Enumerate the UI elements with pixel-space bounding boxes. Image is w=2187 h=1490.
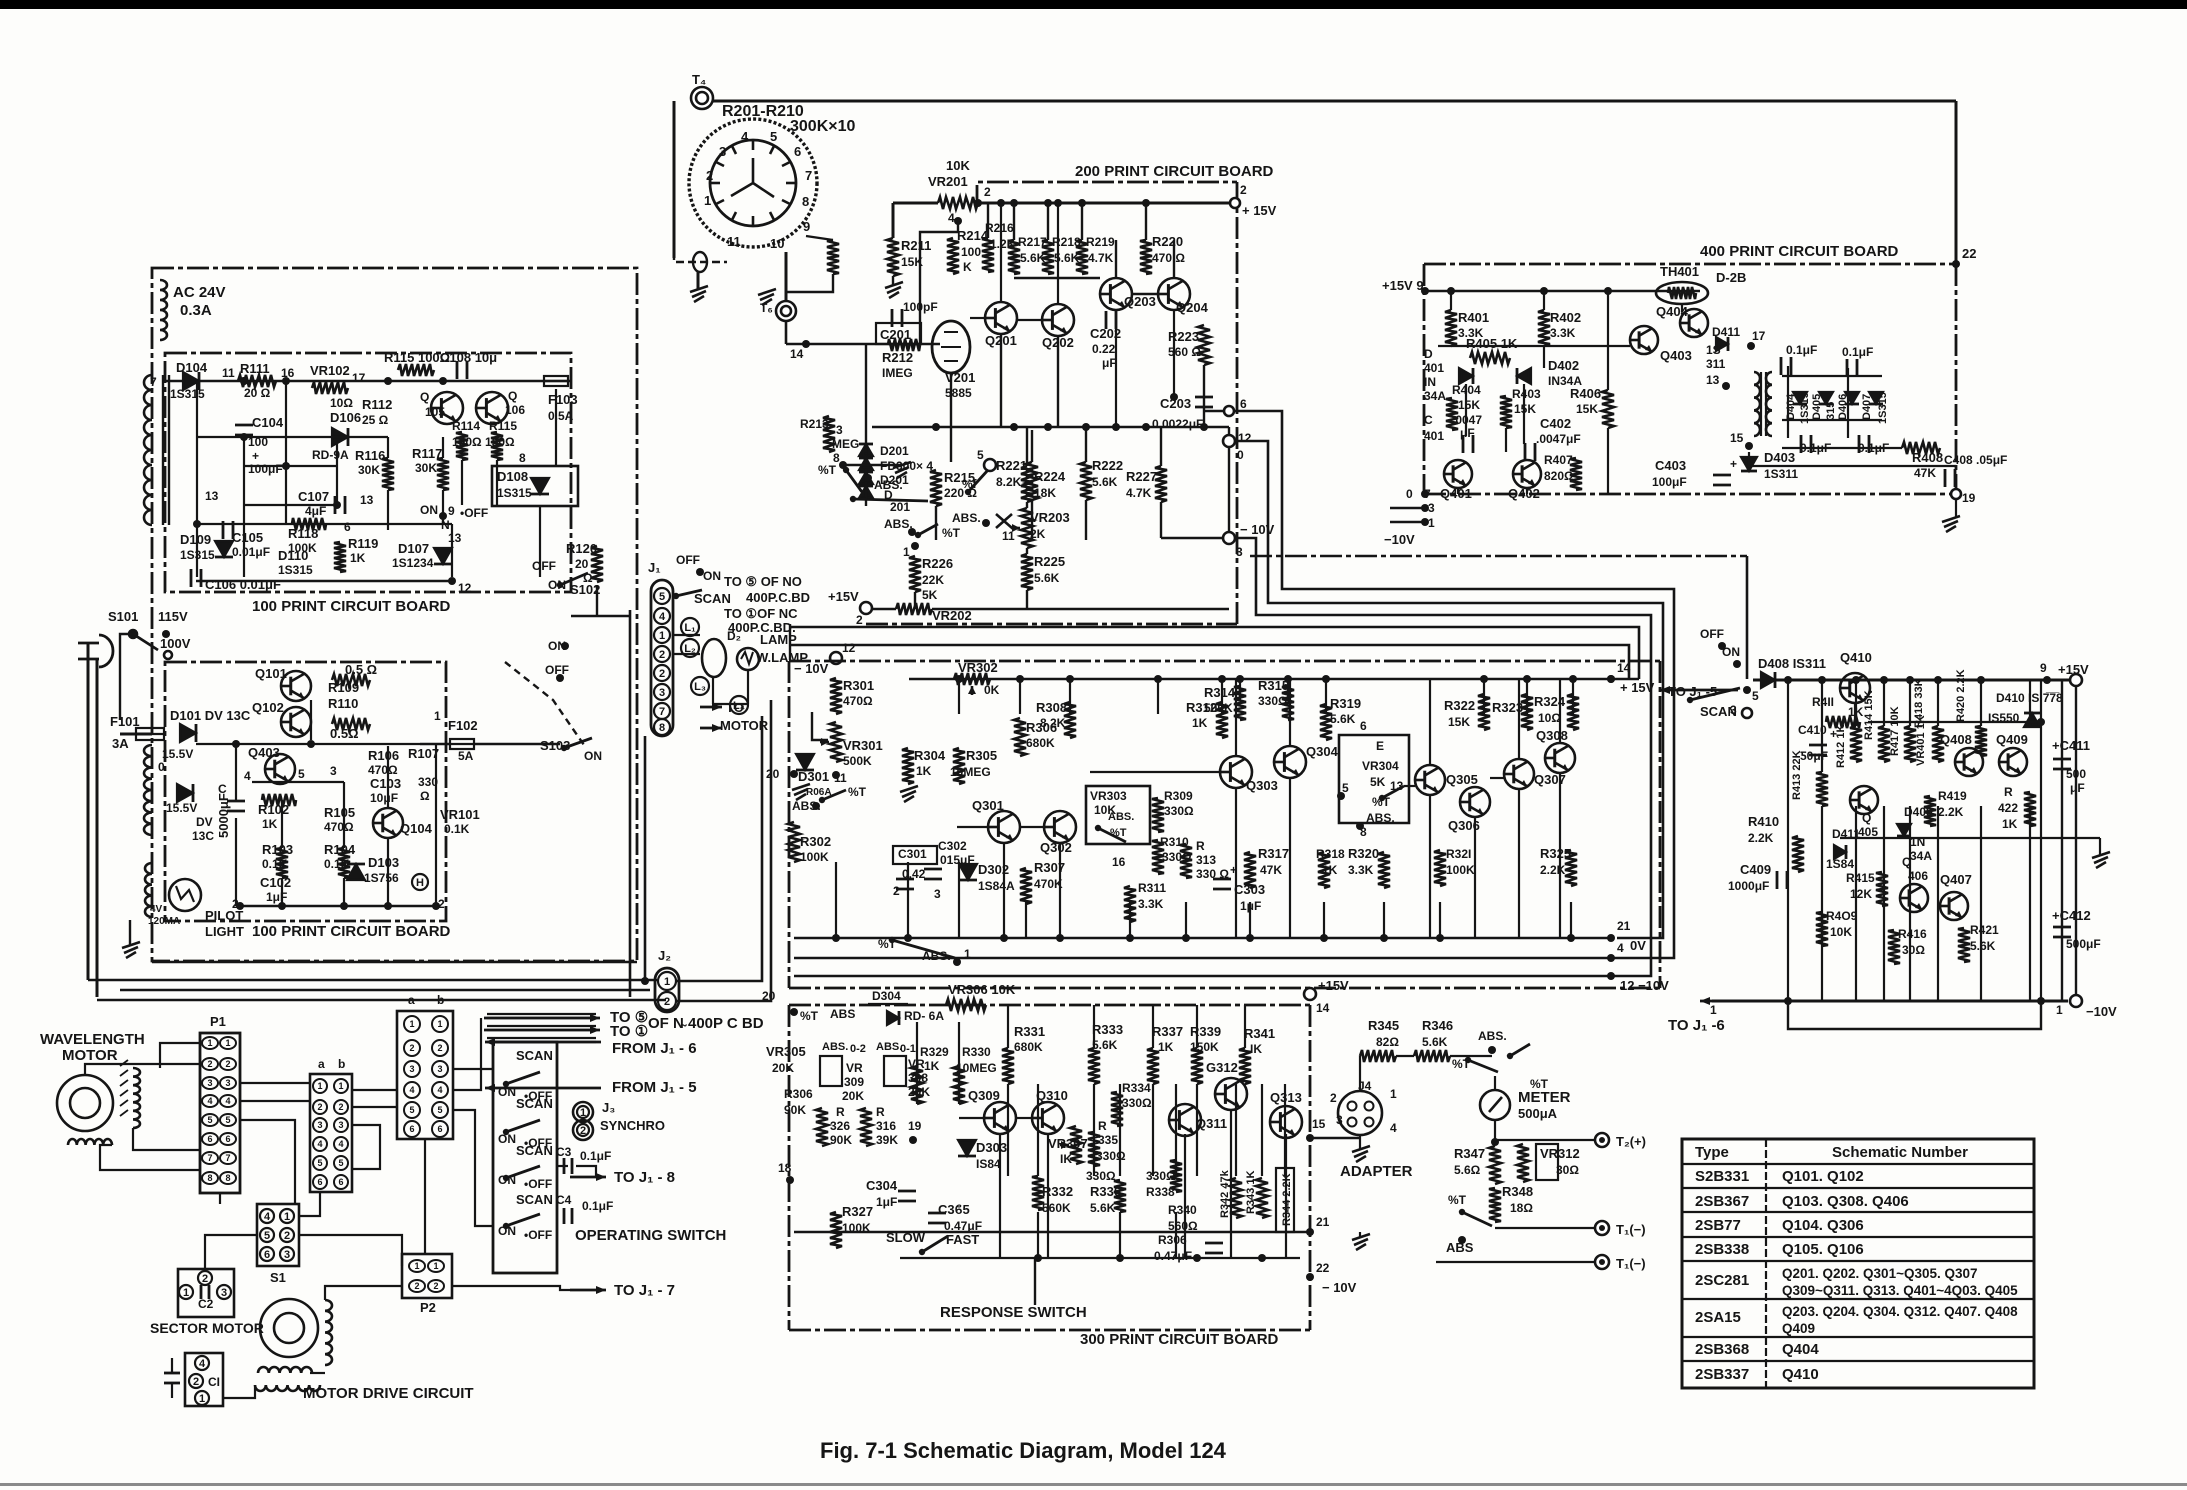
resistor R333 element	[1088, 1048, 1100, 1084]
400 board outline right	[1955, 264, 1958, 494]
junction c3	[1112, 423, 1120, 431]
fuse F103	[544, 376, 568, 386]
svg-text:Q409: Q409	[1782, 1321, 1815, 1336]
wire secondary to bottom rail	[1749, 452, 1956, 466]
junction top bus 300	[1322, 675, 1330, 683]
wire -10V return loop right section	[1788, 1001, 2041, 1029]
arrow TO J1-8	[570, 1176, 606, 1179]
transistor Q410	[1840, 673, 1870, 703]
svg-text:R119: R119	[348, 536, 378, 551]
svg-text:316: 316	[876, 1119, 896, 1133]
svg-text:2.2K: 2.2K	[1540, 863, 1566, 877]
connector P2 pin pair 1	[409, 1260, 425, 1272]
svg-text:2: 2	[433, 1281, 438, 1291]
svg-text:18K: 18K	[1034, 486, 1056, 500]
svg-text:1S84: 1S84	[1826, 857, 1854, 871]
svg-text:5000μF: 5000μF	[216, 793, 231, 838]
resistor R338 element	[1170, 1160, 1182, 1192]
svg-text:TH401: TH401	[1660, 264, 1699, 279]
wire lower col drop	[1284, 1084, 1286, 1176]
label D304 underline	[868, 1003, 908, 1005]
svg-text:R407: R407	[1544, 453, 1573, 467]
operating switch body	[493, 1042, 557, 1273]
diode D401 element	[1459, 368, 1473, 384]
svg-text:C3ϐ5: C3ϐ5	[938, 1202, 970, 1217]
wire lower transistor down	[1184, 1134, 1186, 1258]
node 19	[909, 1136, 917, 1144]
junction top bus 300	[1523, 675, 1531, 683]
arrow shaft TO1	[487, 1029, 596, 1031]
wire Q203 collector up	[1115, 240, 1117, 278]
capacitor C401 element	[1462, 435, 1465, 453]
bottom hairline rule	[0, 1483, 2187, 1486]
svg-text:VR201: VR201	[928, 174, 968, 189]
svg-text:Q403: Q403	[248, 745, 280, 760]
capacitor C301 element	[896, 878, 914, 881]
ground right section	[2092, 852, 2110, 858]
svg-text:R412 1K: R412 1K	[1835, 725, 1847, 768]
resistor R315 element	[1282, 686, 1294, 720]
wire 100 board column	[243, 438, 245, 577]
svg-text:R329: R329	[920, 1045, 949, 1059]
wire rectifier top rail	[1782, 375, 1882, 377]
svg-text:1S315: 1S315	[278, 563, 313, 577]
svg-text:6: 6	[1360, 719, 1367, 733]
svg-text:7: 7	[207, 1153, 212, 1163]
svg-text:12 −10V: 12 −10V	[1620, 978, 1669, 993]
wire -10V terminal drop	[1228, 447, 1230, 532]
diode D408 element	[1761, 672, 1775, 688]
svg-text:ABS.: ABS.	[952, 511, 981, 525]
svg-text:5: 5	[317, 1158, 322, 1168]
wire resistor to 0V bus	[1323, 902, 1325, 938]
svg-text:R120: R120	[566, 541, 597, 556]
svg-text:330Ω: 330Ω	[1122, 1096, 1152, 1110]
wire 21 bus to ground	[1359, 1232, 1361, 1238]
node top bus	[1078, 199, 1086, 207]
resistor R223 element	[1198, 325, 1210, 365]
diode D403 element	[1741, 457, 1757, 471]
sector motor winding horizontal	[258, 1367, 312, 1373]
connector P2 pin pair 2	[409, 1280, 425, 1292]
resistor R120 element	[591, 546, 603, 582]
wire P1 to wavelength motor a	[160, 1043, 200, 1068]
interconnect loop B	[1235, 441, 1663, 938]
operating switch lever 2	[506, 1120, 540, 1132]
wire to T1 b	[1436, 1261, 1596, 1263]
wire transistor emitter to 0V bus	[1289, 778, 1291, 938]
300 board outline right	[1659, 661, 1662, 988]
wire Q301 to Q302	[1020, 826, 1044, 828]
lower 300 inner bus	[900, 1257, 1300, 1259]
wire resistor to 0V bus	[1185, 902, 1187, 938]
wire Q312 down	[1230, 1110, 1232, 1258]
svg-text:R112: R112	[362, 397, 392, 412]
svg-text:D107: D107	[398, 541, 429, 556]
svg-text:5: 5	[298, 767, 305, 781]
wire V201 down	[950, 373, 952, 462]
resistor R322 element	[1478, 694, 1490, 730]
transistor Q204	[1158, 278, 1190, 310]
table row line	[1682, 1298, 2034, 1300]
svg-text:IK: IK	[1250, 1042, 1262, 1056]
fuse F102 element	[450, 739, 474, 749]
wire to Q301 base	[957, 826, 988, 828]
wire +15V bus 400	[1425, 290, 1700, 292]
svg-text:R306: R306	[1158, 1233, 1187, 1247]
connector P2 body	[402, 1254, 452, 1298]
transistor Q304	[1274, 746, 1306, 778]
junction 400 a	[1447, 287, 1455, 295]
wire R406 top	[1607, 291, 1609, 390]
transformer core line 2	[168, 375, 170, 525]
abs switch lever	[1510, 1044, 1530, 1056]
wire dashed to rotary wafer	[674, 252, 727, 262]
svg-text:11: 11	[727, 234, 741, 249]
svg-text:OFF: OFF	[545, 663, 569, 677]
connector J1 pin 5	[654, 588, 670, 604]
C1 pin 2	[189, 1374, 203, 1388]
svg-text:14: 14	[790, 347, 804, 361]
svg-text:D404: D404	[1785, 393, 1797, 420]
svg-text:5: 5	[1752, 689, 1759, 703]
svg-text:8: 8	[519, 451, 526, 465]
svg-text:•OFF: •OFF	[524, 1177, 552, 1191]
wire Q402 down	[1526, 488, 1528, 494]
wire S1 to ab mid link	[299, 1192, 320, 1216]
wire R222 bottom	[1085, 500, 1087, 540]
switch S101 contact a	[129, 630, 137, 638]
wire transistor emitter to 0V bus	[1518, 789, 1520, 938]
capacitor C301 frame	[893, 846, 937, 864]
svg-text:470Ω: 470Ω	[324, 820, 354, 834]
interconnect loop D	[790, 627, 1639, 679]
svg-text:PILOT: PILOT	[205, 908, 243, 923]
tube V201 envelope	[932, 321, 970, 373]
wire VR203 to R225	[1026, 548, 1028, 554]
svg-text:ABS: ABS	[830, 1007, 855, 1021]
pot VR312 element	[1517, 1144, 1529, 1182]
svg-text:b: b	[437, 993, 444, 1007]
svg-text:Q408: Q408	[1940, 732, 1972, 747]
svg-text:90K: 90K	[830, 1133, 852, 1147]
C1 pin 1	[195, 1391, 209, 1405]
lamp terminal L3	[691, 677, 709, 695]
svg-text:3: 3	[836, 423, 843, 437]
wire lower col drop	[1037, 1084, 1039, 1176]
svg-text:0.1μF: 0.1μF	[1842, 345, 1873, 359]
resistor R409 element	[1816, 912, 1828, 946]
resistor R324 element	[1567, 694, 1579, 730]
svg-text:6: 6	[794, 144, 801, 159]
100 PCB upper board outline	[165, 353, 571, 592]
transistor Q402	[1513, 460, 1541, 488]
svg-text:5.6Ω: 5.6Ω	[1454, 1163, 1481, 1177]
resistor R342 element	[1230, 1178, 1242, 1218]
svg-text:TO J₁ -5: TO J₁ -5	[1668, 684, 1717, 699]
svg-text:5.6K: 5.6K	[1092, 1038, 1118, 1052]
svg-text:Q407: Q407	[1940, 872, 1972, 887]
svg-text:22: 22	[1316, 1261, 1330, 1275]
svg-text:2: 2	[207, 1059, 212, 1069]
connector P1 body	[200, 1033, 240, 1193]
svg-text:%T: %T	[848, 785, 867, 799]
resistor R414 element	[1878, 726, 1890, 762]
terminal +15V pin2 lower	[860, 602, 872, 614]
capacitor C302 element	[924, 868, 942, 871]
svg-text:SCAN: SCAN	[516, 1143, 553, 1158]
node 14 dot	[802, 340, 810, 348]
svg-text:R105: R105	[324, 805, 355, 820]
diode D411b element	[1716, 337, 1728, 351]
table row line	[1682, 1236, 2034, 1238]
svg-text:2: 2	[284, 1230, 290, 1242]
resistor from rotary contact 9	[827, 240, 839, 274]
transformer secondary winding upper	[144, 745, 152, 835]
connector J1 pin 1	[654, 627, 670, 643]
junction top bus 300	[1066, 675, 1074, 683]
svg-text:100μF: 100μF	[248, 462, 283, 476]
terminal +15V right	[2070, 674, 2082, 686]
svg-text:470 Ω: 470 Ω	[1152, 251, 1185, 265]
svg-text:106: 106	[505, 403, 525, 417]
arrow to motor 2	[700, 727, 722, 730]
svg-text:201: 201	[890, 500, 910, 514]
table row line	[1682, 1211, 2034, 1213]
diode D410 element	[2024, 713, 2040, 727]
capacitor C4 element	[563, 1208, 566, 1224]
svg-text:R402: R402	[1550, 310, 1581, 325]
svg-text:18: 18	[778, 1161, 792, 1175]
svg-text:D201: D201	[880, 444, 909, 458]
transistor Q312	[1215, 1078, 1247, 1110]
junction top bus 300	[955, 675, 963, 683]
wire drop col	[1069, 679, 1071, 714]
svg-text:K: K	[963, 260, 972, 274]
svg-text:10Ω: 10Ω	[1538, 711, 1561, 725]
transistor Q401	[1444, 460, 1472, 488]
wire P1 to ab mid 2	[240, 1100, 310, 1102]
wire R227 top	[1160, 427, 1162, 466]
connector ab right pin 5	[404, 1102, 420, 1118]
100 PCB lower board outline	[165, 662, 446, 921]
resistor R118 element	[292, 518, 326, 530]
svg-text:ADAPTER: ADAPTER	[1340, 1163, 1413, 1180]
svg-text:2: 2	[193, 1376, 199, 1388]
resistor R225 element	[1021, 554, 1033, 590]
svg-text:90K: 90K	[784, 1103, 806, 1117]
svg-text:4: 4	[317, 1139, 322, 1149]
right section bottom bus	[1712, 1000, 2068, 1003]
svg-text:200 PRINT CIRCUIT BOARD: 200 PRINT CIRCUIT BOARD	[1075, 163, 1274, 180]
capacitor C403 element	[1713, 474, 1731, 477]
junction 0V bus	[1182, 934, 1190, 942]
svg-text:4: 4	[741, 129, 749, 144]
wire drop col	[958, 679, 960, 714]
svg-text:J₃: J₃	[602, 1100, 615, 1115]
ground below terminal 19	[1942, 516, 1960, 522]
capacitor C402 element	[1524, 443, 1527, 461]
resistor R413 element	[1816, 772, 1828, 806]
svg-text:R216: R216	[985, 221, 1014, 235]
wavelength motor outer	[57, 1075, 113, 1131]
resistor R334 element	[1111, 1092, 1123, 1126]
resistor R104 element	[338, 848, 350, 878]
svg-text:10μF: 10μF	[370, 791, 398, 805]
svg-text:2: 2	[659, 668, 665, 680]
rotary switch toothed ring	[689, 119, 817, 247]
wire right col top	[1883, 680, 1885, 726]
node mid bus	[1010, 423, 1018, 431]
drop R218	[1047, 203, 1049, 240]
lamp terminal L1	[681, 618, 699, 636]
svg-text:0K: 0K	[984, 683, 1000, 697]
svg-text:Q101. Q102: Q101. Q102	[1782, 1168, 1864, 1185]
junction right f	[1906, 676, 1914, 684]
ground left of T6	[758, 289, 776, 295]
svg-text:%T: %T	[1530, 1077, 1549, 1091]
svg-text:Q304: Q304	[1306, 744, 1339, 759]
wire 100 board column	[336, 443, 338, 505]
svg-text:1S756: 1S756	[364, 871, 399, 885]
svg-text:0.3A: 0.3A	[180, 302, 212, 319]
wire 3 stub	[1390, 507, 1425, 509]
wire right col bottom	[1821, 806, 1823, 1001]
svg-text:Q104. Q306: Q104. Q306	[1782, 1217, 1864, 1234]
switch lever lower mid	[918, 524, 938, 535]
meter body	[1480, 1090, 1510, 1120]
svg-text:METER: METER	[1518, 1089, 1571, 1106]
svg-text:3: 3	[1730, 703, 1737, 717]
junction b4	[384, 902, 392, 910]
node bottom left	[236, 902, 244, 910]
transistor Q302	[1044, 811, 1076, 843]
svg-text:TO J₁ - 7: TO J₁ - 7	[614, 1282, 675, 1299]
svg-text:+15V 9: +15V 9	[1382, 278, 1424, 293]
resistor R422 element	[2024, 792, 2036, 826]
wire transistor emitter to 0V bus	[1003, 843, 1005, 938]
svg-text:10Ω: 10Ω	[330, 396, 353, 410]
resistor R227 element	[1155, 466, 1167, 502]
connector ab mid pin 4	[313, 1137, 327, 1151]
pot VR401 element	[1932, 726, 1944, 762]
svg-text:R419: R419	[1938, 789, 1967, 803]
400 board outline bottom	[1424, 493, 1956, 496]
svg-text:R222: R222	[1092, 458, 1123, 473]
wire F102 feed rail	[196, 743, 420, 745]
svg-text:11: 11	[222, 366, 235, 380]
resistor R348 element	[1489, 1188, 1501, 1222]
wire J1 pin stub a	[674, 634, 700, 636]
drop R217	[1013, 203, 1015, 240]
wire D402 to C402	[1523, 384, 1525, 444]
wire Q201 to Q202 link	[1017, 319, 1042, 321]
svg-text:μF: μF	[2070, 781, 2085, 795]
interconnect right vertical	[1746, 556, 1749, 679]
resistor R305 element	[953, 748, 965, 784]
lower 300 board outline left	[788, 1005, 791, 1330]
diode D102	[177, 784, 193, 802]
wire lower col top	[1152, 1005, 1154, 1048]
svg-text:R311: R311	[1138, 881, 1166, 895]
diode D402 element	[1517, 368, 1531, 384]
node 18	[786, 1176, 794, 1184]
svg-text:R348: R348	[1502, 1184, 1533, 1199]
wire drop col	[1325, 679, 1327, 714]
drop R220	[1145, 203, 1147, 240]
node bottom right	[432, 902, 440, 910]
wire Q307 base	[1490, 777, 1504, 779]
wire T4 to 400 board top	[713, 100, 1956, 103]
arrow shaft TO5	[487, 1013, 596, 1015]
wire 400 base rail	[1438, 345, 1630, 347]
wire R221 bottom	[1031, 500, 1033, 540]
resistor R408 element	[1902, 442, 1940, 454]
wire transistor emitter to 0V bus	[1059, 843, 1061, 938]
svg-text:Q310: Q310	[1036, 1088, 1068, 1103]
svg-text:13: 13	[205, 489, 219, 503]
wire right col top	[1909, 680, 1911, 726]
diode D303	[958, 1140, 976, 1156]
resistor R313 element	[1180, 844, 1192, 878]
svg-text:680K: 680K	[1014, 1040, 1043, 1054]
capacitor C201 element	[891, 309, 894, 327]
switch lever right	[968, 470, 988, 492]
C2 pin 2	[198, 1271, 212, 1285]
wire P1 to motor b	[85, 1064, 200, 1075]
svg-text:TO ①OF NC: TO ①OF NC	[724, 606, 798, 621]
svg-text:D407: D407	[1861, 394, 1873, 420]
svg-text:D109: D109	[180, 532, 211, 547]
junction 400 e	[1520, 372, 1528, 380]
junction lower bus d	[1258, 1254, 1266, 1262]
wire 100 lower column	[387, 746, 389, 808]
svg-text:2SC281: 2SC281	[1695, 1272, 1749, 1289]
svg-text:VR: VR	[846, 1061, 863, 1075]
200 board outline right edge	[1236, 182, 1239, 624]
interconnect loop C	[1235, 538, 1651, 976]
node 9 right	[2043, 676, 2051, 684]
wire 100 lower column	[435, 744, 437, 906]
svg-text:R227: R227	[1126, 469, 1157, 484]
resistor R314 element	[1234, 686, 1246, 720]
svg-text:13: 13	[1706, 373, 1720, 387]
switch S1 pin 4	[260, 1209, 274, 1223]
svg-text:+15V: +15V	[828, 589, 859, 604]
wire Q401 down	[1457, 488, 1459, 494]
right section top bus	[1753, 679, 2070, 682]
svg-text:20 Ω: 20 Ω	[244, 386, 271, 400]
svg-text:Q203: Q203	[1124, 294, 1156, 309]
wire rectifier bottom rail	[1782, 419, 1882, 421]
wire lower transistor down	[1047, 1134, 1049, 1258]
svg-text:Q103. Q308. Q406: Q103. Q308. Q406	[1782, 1193, 1909, 1210]
pot VR301 bracket	[812, 712, 828, 740]
operating switch lever 1	[506, 1072, 540, 1084]
svg-text:6: 6	[338, 1177, 343, 1187]
resistor R345 element	[1360, 1050, 1396, 1062]
svg-text:5.6K: 5.6K	[1970, 939, 1996, 953]
connector J1 pin 3	[654, 684, 670, 700]
svg-text:3: 3	[934, 887, 941, 901]
svg-text:Q201. Q202. Q301~Q305. Q307: Q201. Q202. Q301~Q305. Q307	[1782, 1266, 1978, 1281]
svg-text:R107: R107	[408, 746, 439, 761]
svg-text:20: 20	[762, 989, 776, 1003]
svg-text:6: 6	[344, 520, 351, 534]
svg-text:L₃: L₃	[694, 681, 706, 693]
svg-text:R102: R102	[258, 802, 289, 817]
svg-text:R403: R403	[1512, 387, 1541, 401]
